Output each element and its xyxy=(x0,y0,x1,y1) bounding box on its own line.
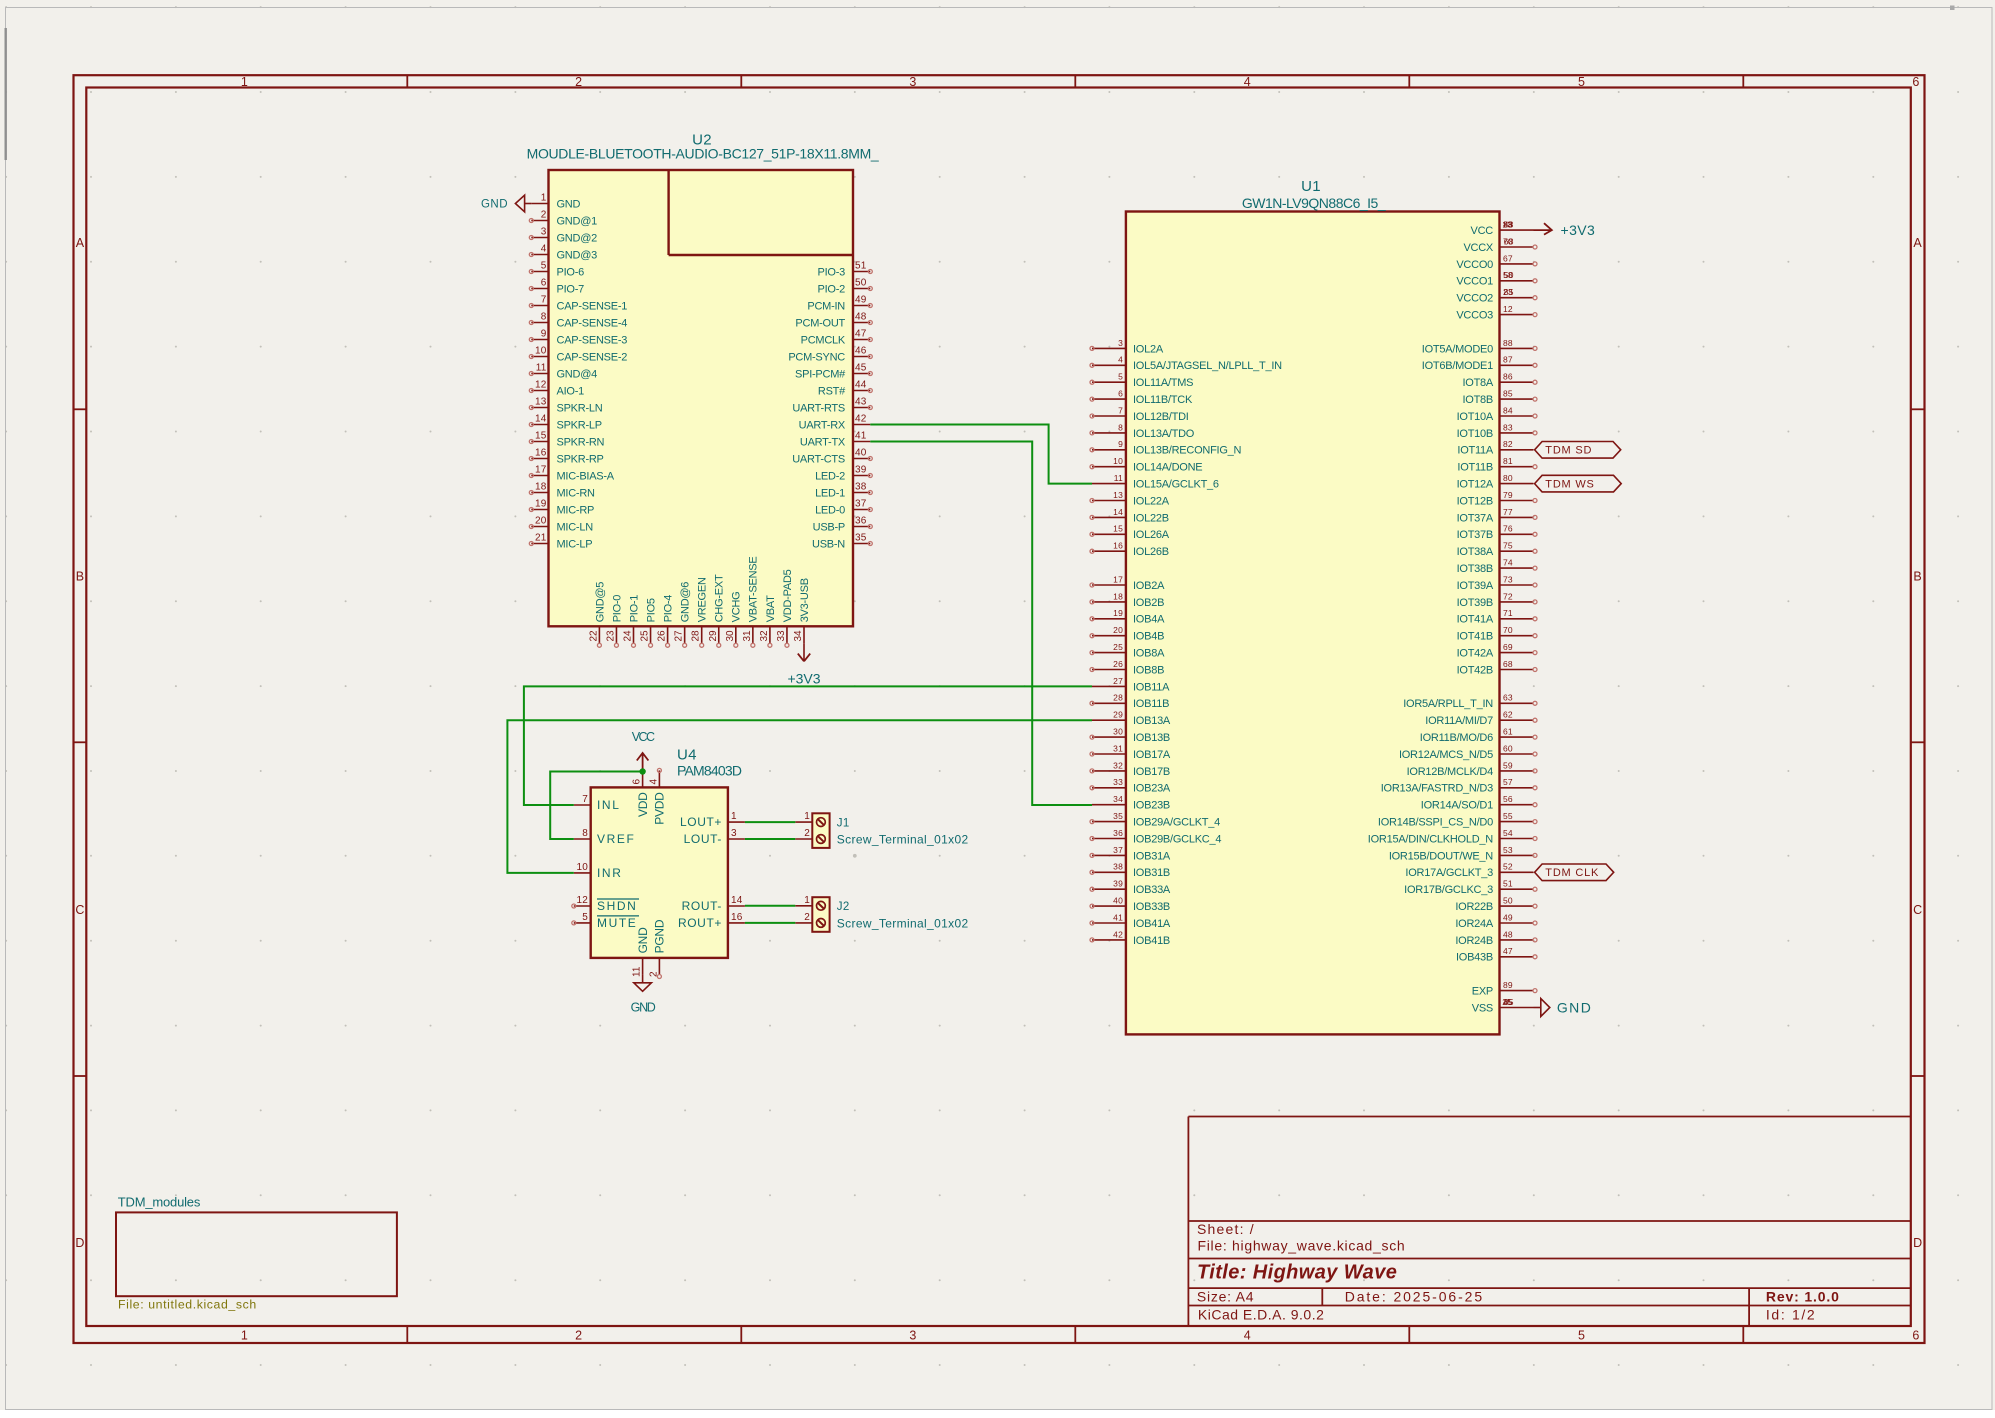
svg-text:47: 47 xyxy=(1503,946,1513,956)
svg-text:PVDD: PVDD xyxy=(653,792,667,825)
svg-text:16: 16 xyxy=(1113,541,1123,551)
svg-text:IOR12B/MCLK/D4: IOR12B/MCLK/D4 xyxy=(1407,766,1493,778)
svg-text:USB-P: USB-P xyxy=(813,521,845,533)
svg-text:12: 12 xyxy=(535,380,547,391)
svg-text:4: 4 xyxy=(648,779,659,785)
svg-text:IOR17A/GCLKT_3: IOR17A/GCLKT_3 xyxy=(1405,867,1493,879)
svg-text:IOB23B: IOB23B xyxy=(1133,800,1170,812)
svg-text:70: 70 xyxy=(1503,625,1513,635)
svg-text:IOL11B/TCK: IOL11B/TCK xyxy=(1133,394,1193,406)
svg-text:18: 18 xyxy=(1113,591,1123,601)
svg-text:2: 2 xyxy=(575,75,582,89)
svg-text:25: 25 xyxy=(640,630,651,642)
svg-text:RST#: RST# xyxy=(818,385,846,397)
svg-text:18: 18 xyxy=(535,482,547,493)
svg-text:IOL11A/TMS: IOL11A/TMS xyxy=(1133,377,1193,389)
svg-text:Screw_Terminal_01x02: Screw_Terminal_01x02 xyxy=(837,917,969,931)
svg-text:2: 2 xyxy=(575,1329,582,1343)
svg-text:40: 40 xyxy=(855,448,867,459)
svg-text:1: 1 xyxy=(804,811,810,822)
svg-text:GND@1: GND@1 xyxy=(557,215,598,227)
svg-text:36: 36 xyxy=(855,516,867,527)
svg-text:KiCad E.D.A. 9.0.2: KiCad E.D.A. 9.0.2 xyxy=(1198,1307,1325,1323)
svg-text:6: 6 xyxy=(541,278,547,289)
svg-text:PIO-3: PIO-3 xyxy=(818,266,846,278)
svg-text:38: 38 xyxy=(1113,862,1123,872)
svg-text:SPKR-RP: SPKR-RP xyxy=(557,453,604,465)
svg-text:IOT39A: IOT39A xyxy=(1457,580,1494,592)
svg-text:30: 30 xyxy=(725,630,736,642)
svg-text:GND@6: GND@6 xyxy=(680,582,692,623)
svg-text:32: 32 xyxy=(1113,760,1123,770)
svg-text:U4: U4 xyxy=(677,746,697,763)
svg-text:85: 85 xyxy=(1504,287,1514,297)
svg-text:IOT41B: IOT41B xyxy=(1457,631,1493,643)
svg-text:INL: INL xyxy=(597,798,620,812)
svg-text:Screw_Terminal_01x02: Screw_Terminal_01x02 xyxy=(837,833,969,847)
svg-text:PIO-6: PIO-6 xyxy=(557,266,585,278)
svg-text:15: 15 xyxy=(1113,524,1123,534)
svg-text:MIC-LN: MIC-LN xyxy=(557,521,594,533)
svg-text:23: 23 xyxy=(605,630,616,642)
svg-text:80: 80 xyxy=(1503,473,1513,483)
svg-text:VREF: VREF xyxy=(597,832,635,846)
svg-text:IOL13A/TDO: IOL13A/TDO xyxy=(1133,428,1195,440)
svg-text:69: 69 xyxy=(1503,642,1513,652)
svg-text:LED-0: LED-0 xyxy=(815,504,845,516)
svg-text:UART-TX: UART-TX xyxy=(800,436,846,448)
svg-text:9: 9 xyxy=(541,329,547,340)
svg-text:UART-RX: UART-RX xyxy=(799,419,846,431)
svg-text:3: 3 xyxy=(731,828,737,839)
svg-text:IOB4A: IOB4A xyxy=(1133,614,1165,626)
svg-text:IOT37A: IOT37A xyxy=(1457,512,1494,524)
svg-text:68: 68 xyxy=(1504,236,1514,246)
svg-text:VDD-PAD5: VDD-PAD5 xyxy=(782,569,794,622)
svg-text:15: 15 xyxy=(535,431,547,442)
svg-text:19: 19 xyxy=(1113,608,1123,618)
svg-text:MIC-RN: MIC-RN xyxy=(557,487,596,499)
svg-text:Date: 2025-06-25: Date: 2025-06-25 xyxy=(1345,1288,1484,1304)
svg-text:IOR11B/MO/D6: IOR11B/MO/D6 xyxy=(1420,732,1493,744)
svg-text:GND: GND xyxy=(1557,1000,1592,1016)
svg-text:2: 2 xyxy=(804,912,810,923)
svg-text:Sheet: /: Sheet: / xyxy=(1197,1221,1255,1237)
svg-text:62: 62 xyxy=(1503,710,1513,720)
svg-text:IOR15B/DOUT/WE_N: IOR15B/DOUT/WE_N xyxy=(1389,850,1493,862)
svg-text:LOUT+: LOUT+ xyxy=(680,815,722,829)
svg-text:USB-N: USB-N xyxy=(812,538,845,550)
svg-text:42: 42 xyxy=(855,414,867,425)
svg-text:IOR22B: IOR22B xyxy=(1455,901,1493,913)
svg-text:ROUT+: ROUT+ xyxy=(678,916,722,930)
svg-text:88: 88 xyxy=(1503,338,1513,348)
svg-text:3V3-USB: 3V3-USB xyxy=(799,578,811,622)
svg-text:MOUDLE-BLUETOOTH-AUDIO-BC127_5: MOUDLE-BLUETOOTH-AUDIO-BC127_51P-18X11.8… xyxy=(527,146,879,162)
svg-text:55: 55 xyxy=(1503,811,1513,821)
svg-text:1: 1 xyxy=(541,193,547,204)
svg-text:5: 5 xyxy=(1118,372,1123,382)
svg-text:Rev: 1.0.0: Rev: 1.0.0 xyxy=(1766,1288,1840,1304)
svg-text:26: 26 xyxy=(1113,659,1123,669)
svg-text:ROUT-: ROUT- xyxy=(682,899,722,913)
svg-text:48: 48 xyxy=(855,312,867,323)
svg-text:33: 33 xyxy=(1113,777,1123,787)
svg-text:CAP-SENSE-4: CAP-SENSE-4 xyxy=(557,317,628,329)
svg-text:TDM_modules: TDM_modules xyxy=(118,1195,201,1210)
svg-text:61: 61 xyxy=(1503,727,1513,737)
svg-text:36: 36 xyxy=(1113,828,1123,838)
svg-text:9: 9 xyxy=(1118,439,1123,449)
svg-text:GND@3: GND@3 xyxy=(557,249,598,261)
svg-text:41: 41 xyxy=(855,431,867,442)
svg-text:IOR17B/GCLKC_3: IOR17B/GCLKC_3 xyxy=(1404,884,1493,896)
svg-text:PCMCLK: PCMCLK xyxy=(801,334,846,346)
svg-text:IOR14B/SSPI_CS_N/D0: IOR14B/SSPI_CS_N/D0 xyxy=(1378,817,1493,829)
svg-text:59: 59 xyxy=(1503,760,1513,770)
svg-text:AIO-1: AIO-1 xyxy=(557,385,585,397)
svg-text:LED-1: LED-1 xyxy=(815,487,845,499)
svg-text:B: B xyxy=(76,569,84,583)
svg-text:28: 28 xyxy=(1113,693,1123,703)
svg-text:VCCO1: VCCO1 xyxy=(1456,276,1493,288)
svg-text:IOR24B: IOR24B xyxy=(1455,935,1493,947)
svg-text:6: 6 xyxy=(632,779,643,785)
svg-text:IOB41B: IOB41B xyxy=(1133,935,1170,947)
svg-text:19: 19 xyxy=(535,499,547,510)
svg-text:MIC-BIAS-A: MIC-BIAS-A xyxy=(557,470,615,482)
svg-text:B: B xyxy=(1913,569,1921,583)
svg-text:IOL26A: IOL26A xyxy=(1133,529,1170,541)
svg-text:29: 29 xyxy=(1113,710,1123,720)
svg-text:47: 47 xyxy=(855,329,867,340)
svg-text:LED-2: LED-2 xyxy=(815,470,845,482)
svg-text:39: 39 xyxy=(1113,879,1123,889)
svg-text:75: 75 xyxy=(1503,541,1513,551)
svg-text:67: 67 xyxy=(1503,253,1513,263)
svg-text:IOT41A: IOT41A xyxy=(1457,614,1494,626)
svg-text:IOB11B: IOB11B xyxy=(1133,698,1169,710)
svg-text:39: 39 xyxy=(855,465,867,476)
svg-text:VBAT: VBAT xyxy=(765,595,777,622)
svg-text:IOT37B: IOT37B xyxy=(1457,529,1493,541)
svg-text:IOT38A: IOT38A xyxy=(1457,546,1494,558)
svg-text:4: 4 xyxy=(1244,75,1251,89)
svg-text:84: 84 xyxy=(1503,405,1513,415)
svg-text:TDM WS: TDM WS xyxy=(1545,479,1594,491)
svg-text:IOB2A: IOB2A xyxy=(1133,580,1165,592)
svg-text:3: 3 xyxy=(1118,338,1123,348)
svg-text:13: 13 xyxy=(1113,490,1123,500)
svg-text:SPKR-RN: SPKR-RN xyxy=(557,436,605,448)
svg-text:Id: 1/2: Id: 1/2 xyxy=(1766,1307,1816,1323)
svg-text:IOT6B/MODE1: IOT6B/MODE1 xyxy=(1422,360,1493,372)
svg-text:8: 8 xyxy=(582,828,588,839)
svg-text:82: 82 xyxy=(1503,439,1513,449)
svg-text:45: 45 xyxy=(855,363,867,374)
svg-text:5: 5 xyxy=(582,912,588,923)
svg-text:79: 79 xyxy=(1503,490,1513,500)
svg-text:IOB13B: IOB13B xyxy=(1133,732,1170,744)
svg-text:GND@5: GND@5 xyxy=(594,582,606,623)
svg-text:1: 1 xyxy=(241,1329,248,1343)
svg-text:31: 31 xyxy=(1113,743,1123,753)
svg-text:UART-RTS: UART-RTS xyxy=(792,402,845,414)
svg-text:IOL15A/GCLKT_6: IOL15A/GCLKT_6 xyxy=(1133,479,1219,491)
svg-text:83: 83 xyxy=(1503,422,1513,432)
svg-text:5: 5 xyxy=(541,261,547,272)
svg-text:14: 14 xyxy=(535,414,547,425)
svg-text:34: 34 xyxy=(1113,794,1123,804)
svg-text:SPI-PCM#: SPI-PCM# xyxy=(795,368,846,380)
svg-text:17: 17 xyxy=(535,465,547,476)
svg-text:IOR12A/MCS_N/D5: IOR12A/MCS_N/D5 xyxy=(1399,749,1493,761)
svg-text:11: 11 xyxy=(632,966,643,977)
svg-text:VCCX: VCCX xyxy=(1463,242,1493,254)
svg-text:IOB33A: IOB33A xyxy=(1133,884,1171,896)
svg-text:44: 44 xyxy=(855,380,867,391)
svg-text:13: 13 xyxy=(535,397,547,408)
svg-text:12: 12 xyxy=(1503,304,1513,314)
svg-text:3: 3 xyxy=(909,1329,916,1343)
svg-text:GND: GND xyxy=(636,927,650,954)
svg-text:PCM-IN: PCM-IN xyxy=(807,300,845,312)
svg-text:IOR14A/SO/D1: IOR14A/SO/D1 xyxy=(1421,800,1493,812)
svg-text:54: 54 xyxy=(1503,828,1513,838)
svg-text:68: 68 xyxy=(1503,659,1513,669)
svg-text:VCC: VCC xyxy=(632,730,655,744)
svg-text:CAP-SENSE-2: CAP-SENSE-2 xyxy=(557,351,628,363)
svg-text:IOT12A: IOT12A xyxy=(1457,479,1494,491)
svg-text:12: 12 xyxy=(576,895,588,906)
svg-text:D: D xyxy=(75,1236,84,1250)
svg-text:VCC: VCC xyxy=(1471,225,1494,237)
svg-text:8: 8 xyxy=(1118,422,1123,432)
svg-text:IOB11A: IOB11A xyxy=(1133,681,1170,693)
svg-text:17: 17 xyxy=(1113,574,1123,584)
svg-text:File: untitled.kicad_sch: File: untitled.kicad_sch xyxy=(118,1297,257,1311)
svg-text:30: 30 xyxy=(1113,727,1123,737)
svg-text:C: C xyxy=(75,903,84,917)
svg-text:11: 11 xyxy=(1114,473,1123,483)
svg-text:28: 28 xyxy=(691,630,702,642)
svg-text:TDM SD: TDM SD xyxy=(1545,445,1592,457)
svg-text:72: 72 xyxy=(1503,591,1513,601)
svg-text:IOB17B: IOB17B xyxy=(1133,766,1170,778)
svg-text:GND: GND xyxy=(631,1001,656,1015)
svg-text:50: 50 xyxy=(855,278,867,289)
svg-text:2: 2 xyxy=(541,210,547,221)
svg-text:IOL12B/TDI: IOL12B/TDI xyxy=(1133,411,1189,423)
svg-text:60: 60 xyxy=(1503,743,1513,753)
svg-text:TDM CLK: TDM CLK xyxy=(1545,867,1599,879)
svg-text:48: 48 xyxy=(1503,929,1513,939)
svg-text:MIC-LP: MIC-LP xyxy=(557,538,593,550)
svg-text:MUTE: MUTE xyxy=(597,916,637,930)
svg-text:3: 3 xyxy=(909,75,916,89)
svg-text:16: 16 xyxy=(731,912,743,923)
svg-text:+3V3: +3V3 xyxy=(787,671,820,687)
svg-text:1: 1 xyxy=(731,811,737,822)
svg-text:3: 3 xyxy=(541,227,547,238)
svg-text:A: A xyxy=(1913,236,1922,250)
svg-text:PIO-7: PIO-7 xyxy=(557,283,585,295)
svg-text:PCM-OUT: PCM-OUT xyxy=(795,317,845,329)
svg-text:8: 8 xyxy=(541,312,547,323)
svg-text:IOR15A/DIN/CLKHOLD_N: IOR15A/DIN/CLKHOLD_N xyxy=(1368,833,1494,845)
svg-text:IOB31A: IOB31A xyxy=(1133,850,1171,862)
svg-text:IOB31B: IOB31B xyxy=(1133,867,1170,879)
svg-text:43: 43 xyxy=(1504,220,1514,230)
svg-text:14: 14 xyxy=(731,895,743,906)
svg-text:63: 63 xyxy=(1503,693,1513,703)
svg-text:IOB13A: IOB13A xyxy=(1133,715,1171,727)
svg-text:37: 37 xyxy=(1113,845,1123,855)
svg-text:IOB17A: IOB17A xyxy=(1133,749,1171,761)
svg-text:33: 33 xyxy=(776,630,787,642)
svg-text:GND@4: GND@4 xyxy=(557,368,598,380)
svg-text:SHDN: SHDN xyxy=(597,899,637,913)
svg-text:PCM-SYNC: PCM-SYNC xyxy=(788,351,845,363)
svg-text:J1: J1 xyxy=(837,817,850,829)
svg-text:U1: U1 xyxy=(1301,178,1321,195)
svg-text:VCCO2: VCCO2 xyxy=(1456,293,1493,305)
svg-text:VREGEN: VREGEN xyxy=(697,577,709,622)
svg-text:INR: INR xyxy=(597,866,622,880)
svg-text:5: 5 xyxy=(1578,1329,1585,1343)
svg-text:VSS: VSS xyxy=(1472,1002,1493,1014)
svg-text:IOT11A: IOT11A xyxy=(1457,445,1494,457)
svg-text:4: 4 xyxy=(1244,1329,1251,1343)
svg-text:IOT39B: IOT39B xyxy=(1457,597,1493,609)
svg-text:2: 2 xyxy=(648,971,659,977)
svg-text:86: 86 xyxy=(1503,372,1513,382)
svg-text:41: 41 xyxy=(1113,912,1123,922)
svg-text:89: 89 xyxy=(1503,980,1513,990)
svg-text:10: 10 xyxy=(535,346,547,357)
svg-text:C: C xyxy=(1913,903,1922,917)
svg-text:IOB29A/GCLKT_4: IOB29A/GCLKT_4 xyxy=(1133,817,1220,829)
svg-text:27: 27 xyxy=(1113,676,1123,686)
svg-text:74: 74 xyxy=(1503,558,1513,568)
svg-text:7: 7 xyxy=(582,794,588,805)
svg-text:VCCO0: VCCO0 xyxy=(1456,259,1493,271)
svg-text:IOT8A: IOT8A xyxy=(1462,377,1493,389)
svg-text:25: 25 xyxy=(1113,642,1123,652)
svg-text:IOB41A: IOB41A xyxy=(1133,918,1171,930)
svg-text:IOT5A/MODE0: IOT5A/MODE0 xyxy=(1422,343,1493,355)
svg-text:38: 38 xyxy=(855,482,867,493)
svg-text:A: A xyxy=(76,236,85,250)
svg-text:File: highway_wave.kicad_sch: File: highway_wave.kicad_sch xyxy=(1198,1238,1406,1254)
svg-text:IOT10A: IOT10A xyxy=(1457,411,1494,423)
svg-text:49: 49 xyxy=(855,295,867,306)
svg-text:IOR11A/MI/D7: IOR11A/MI/D7 xyxy=(1425,715,1493,727)
svg-text:IOB2B: IOB2B xyxy=(1133,597,1164,609)
svg-text:IOL5A/JTAGSEL_N/LPLL_T_IN: IOL5A/JTAGSEL_N/LPLL_T_IN xyxy=(1133,360,1282,372)
svg-text:34: 34 xyxy=(793,630,804,642)
svg-text:PIO5: PIO5 xyxy=(645,598,657,622)
svg-text:85: 85 xyxy=(1503,389,1513,399)
svg-text:6: 6 xyxy=(1912,75,1919,89)
svg-text:35: 35 xyxy=(1113,811,1123,821)
svg-text:IOL22A: IOL22A xyxy=(1133,495,1170,507)
svg-text:20: 20 xyxy=(1113,625,1123,635)
svg-text:49: 49 xyxy=(1503,912,1513,922)
svg-text:50: 50 xyxy=(1504,270,1514,280)
svg-text:SPKR-LP: SPKR-LP xyxy=(557,419,602,431)
svg-text:51: 51 xyxy=(855,261,867,272)
svg-text:IOB43B: IOB43B xyxy=(1456,952,1493,964)
svg-text:SPKR-LN: SPKR-LN xyxy=(557,402,603,414)
svg-text:6: 6 xyxy=(1912,1329,1919,1343)
svg-text:IOB23A: IOB23A xyxy=(1133,783,1171,795)
svg-text:CHG-EXT: CHG-EXT xyxy=(714,574,726,622)
svg-text:20: 20 xyxy=(535,516,547,527)
svg-text:GND: GND xyxy=(481,198,508,210)
svg-text:40: 40 xyxy=(1113,896,1123,906)
svg-text:10: 10 xyxy=(576,862,588,873)
svg-text:IOT12B: IOT12B xyxy=(1457,495,1493,507)
svg-text:7: 7 xyxy=(1118,405,1123,415)
svg-text:+3V3: +3V3 xyxy=(1561,222,1596,238)
svg-text:25: 25 xyxy=(1502,997,1512,1007)
svg-text:42: 42 xyxy=(1113,929,1123,939)
svg-text:53: 53 xyxy=(1503,845,1513,855)
svg-text:MIC-RP: MIC-RP xyxy=(557,504,595,516)
svg-text:21: 21 xyxy=(535,533,547,544)
svg-text:26: 26 xyxy=(657,630,668,642)
svg-text:PIO-1: PIO-1 xyxy=(628,595,640,623)
svg-text:Title: Highway Wave: Title: Highway Wave xyxy=(1197,1262,1397,1284)
svg-text:6: 6 xyxy=(1118,389,1123,399)
svg-text:IOT8B: IOT8B xyxy=(1462,394,1493,406)
svg-text:UART-CTS: UART-CTS xyxy=(792,453,845,465)
svg-text:2: 2 xyxy=(804,828,810,839)
svg-text:IOB33B: IOB33B xyxy=(1133,901,1170,913)
svg-text:51: 51 xyxy=(1503,879,1513,889)
svg-text:4: 4 xyxy=(1118,355,1123,365)
svg-text:LOUT-: LOUT- xyxy=(684,832,722,846)
svg-text:1: 1 xyxy=(804,895,810,906)
svg-text:37: 37 xyxy=(855,499,867,510)
svg-text:11: 11 xyxy=(536,363,547,374)
svg-text:16: 16 xyxy=(535,448,547,459)
svg-text:1: 1 xyxy=(241,75,248,89)
svg-text:IOB4B: IOB4B xyxy=(1133,631,1164,643)
svg-text:10: 10 xyxy=(1113,456,1123,466)
svg-text:46: 46 xyxy=(855,346,867,357)
svg-text:22: 22 xyxy=(588,630,599,642)
svg-text:32: 32 xyxy=(759,630,770,642)
svg-text:27: 27 xyxy=(674,630,685,642)
svg-text:EXP: EXP xyxy=(1472,986,1493,998)
svg-text:IOR24A: IOR24A xyxy=(1455,918,1494,930)
svg-text:4: 4 xyxy=(541,244,547,255)
svg-text:PGND: PGND xyxy=(653,919,667,953)
svg-text:PAM8403D: PAM8403D xyxy=(677,763,742,779)
svg-text:77: 77 xyxy=(1503,507,1513,517)
svg-text:GND: GND xyxy=(557,198,581,210)
svg-text:50: 50 xyxy=(1503,896,1513,906)
svg-text:GW1N-LV9QN88C6_I5_: GW1N-LV9QN88C6_I5_ xyxy=(1242,195,1386,211)
svg-text:87: 87 xyxy=(1503,355,1513,365)
svg-text:29: 29 xyxy=(708,630,719,642)
svg-text:IOL2A: IOL2A xyxy=(1133,343,1164,355)
svg-text:PIO-4: PIO-4 xyxy=(663,595,675,623)
svg-text:IOR13A/FASTRD_N/D3: IOR13A/FASTRD_N/D3 xyxy=(1381,783,1493,795)
svg-text:IOL22B: IOL22B xyxy=(1133,512,1169,524)
